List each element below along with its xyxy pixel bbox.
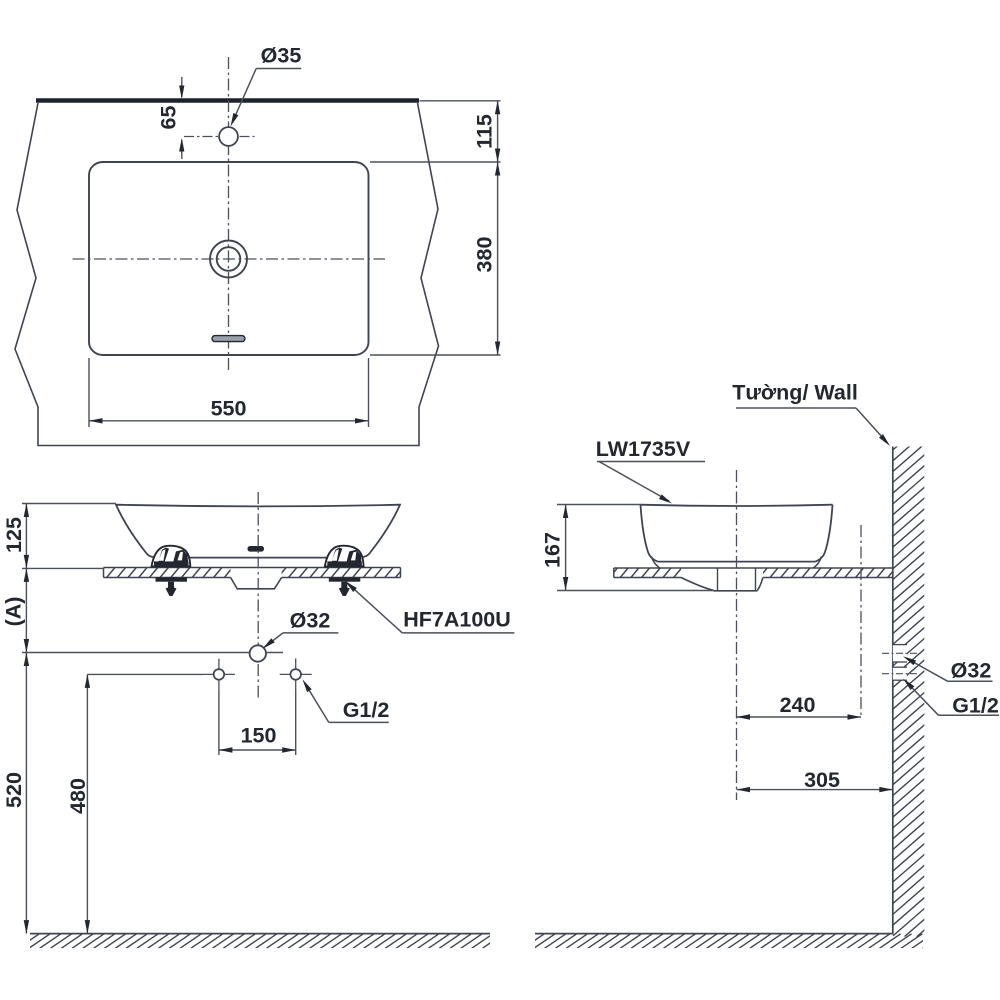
svg-text:150: 150	[241, 724, 277, 748]
svg-text:125: 125	[2, 517, 26, 553]
svg-text:(A): (A)	[2, 597, 26, 627]
svg-text:240: 240	[780, 693, 816, 717]
svg-text:Ø35: Ø35	[261, 44, 302, 68]
svg-text:HF7A100U: HF7A100U	[403, 608, 511, 632]
svg-text:167: 167	[541, 532, 565, 568]
svg-text:380: 380	[473, 237, 497, 273]
svg-text:115: 115	[473, 114, 497, 149]
svg-text:G1/2: G1/2	[952, 694, 999, 718]
svg-text:520: 520	[2, 772, 26, 808]
svg-text:G1/2: G1/2	[343, 698, 390, 722]
svg-text:305: 305	[804, 768, 840, 792]
svg-text:65: 65	[157, 106, 181, 130]
svg-text:480: 480	[66, 778, 90, 814]
svg-text:Tường/ Wall: Tường/ Wall	[732, 381, 858, 405]
svg-text:Ø32: Ø32	[290, 609, 331, 633]
svg-text:550: 550	[211, 397, 247, 421]
svg-text:Ø32: Ø32	[951, 659, 992, 683]
svg-text:LW1735V: LW1735V	[596, 437, 691, 461]
